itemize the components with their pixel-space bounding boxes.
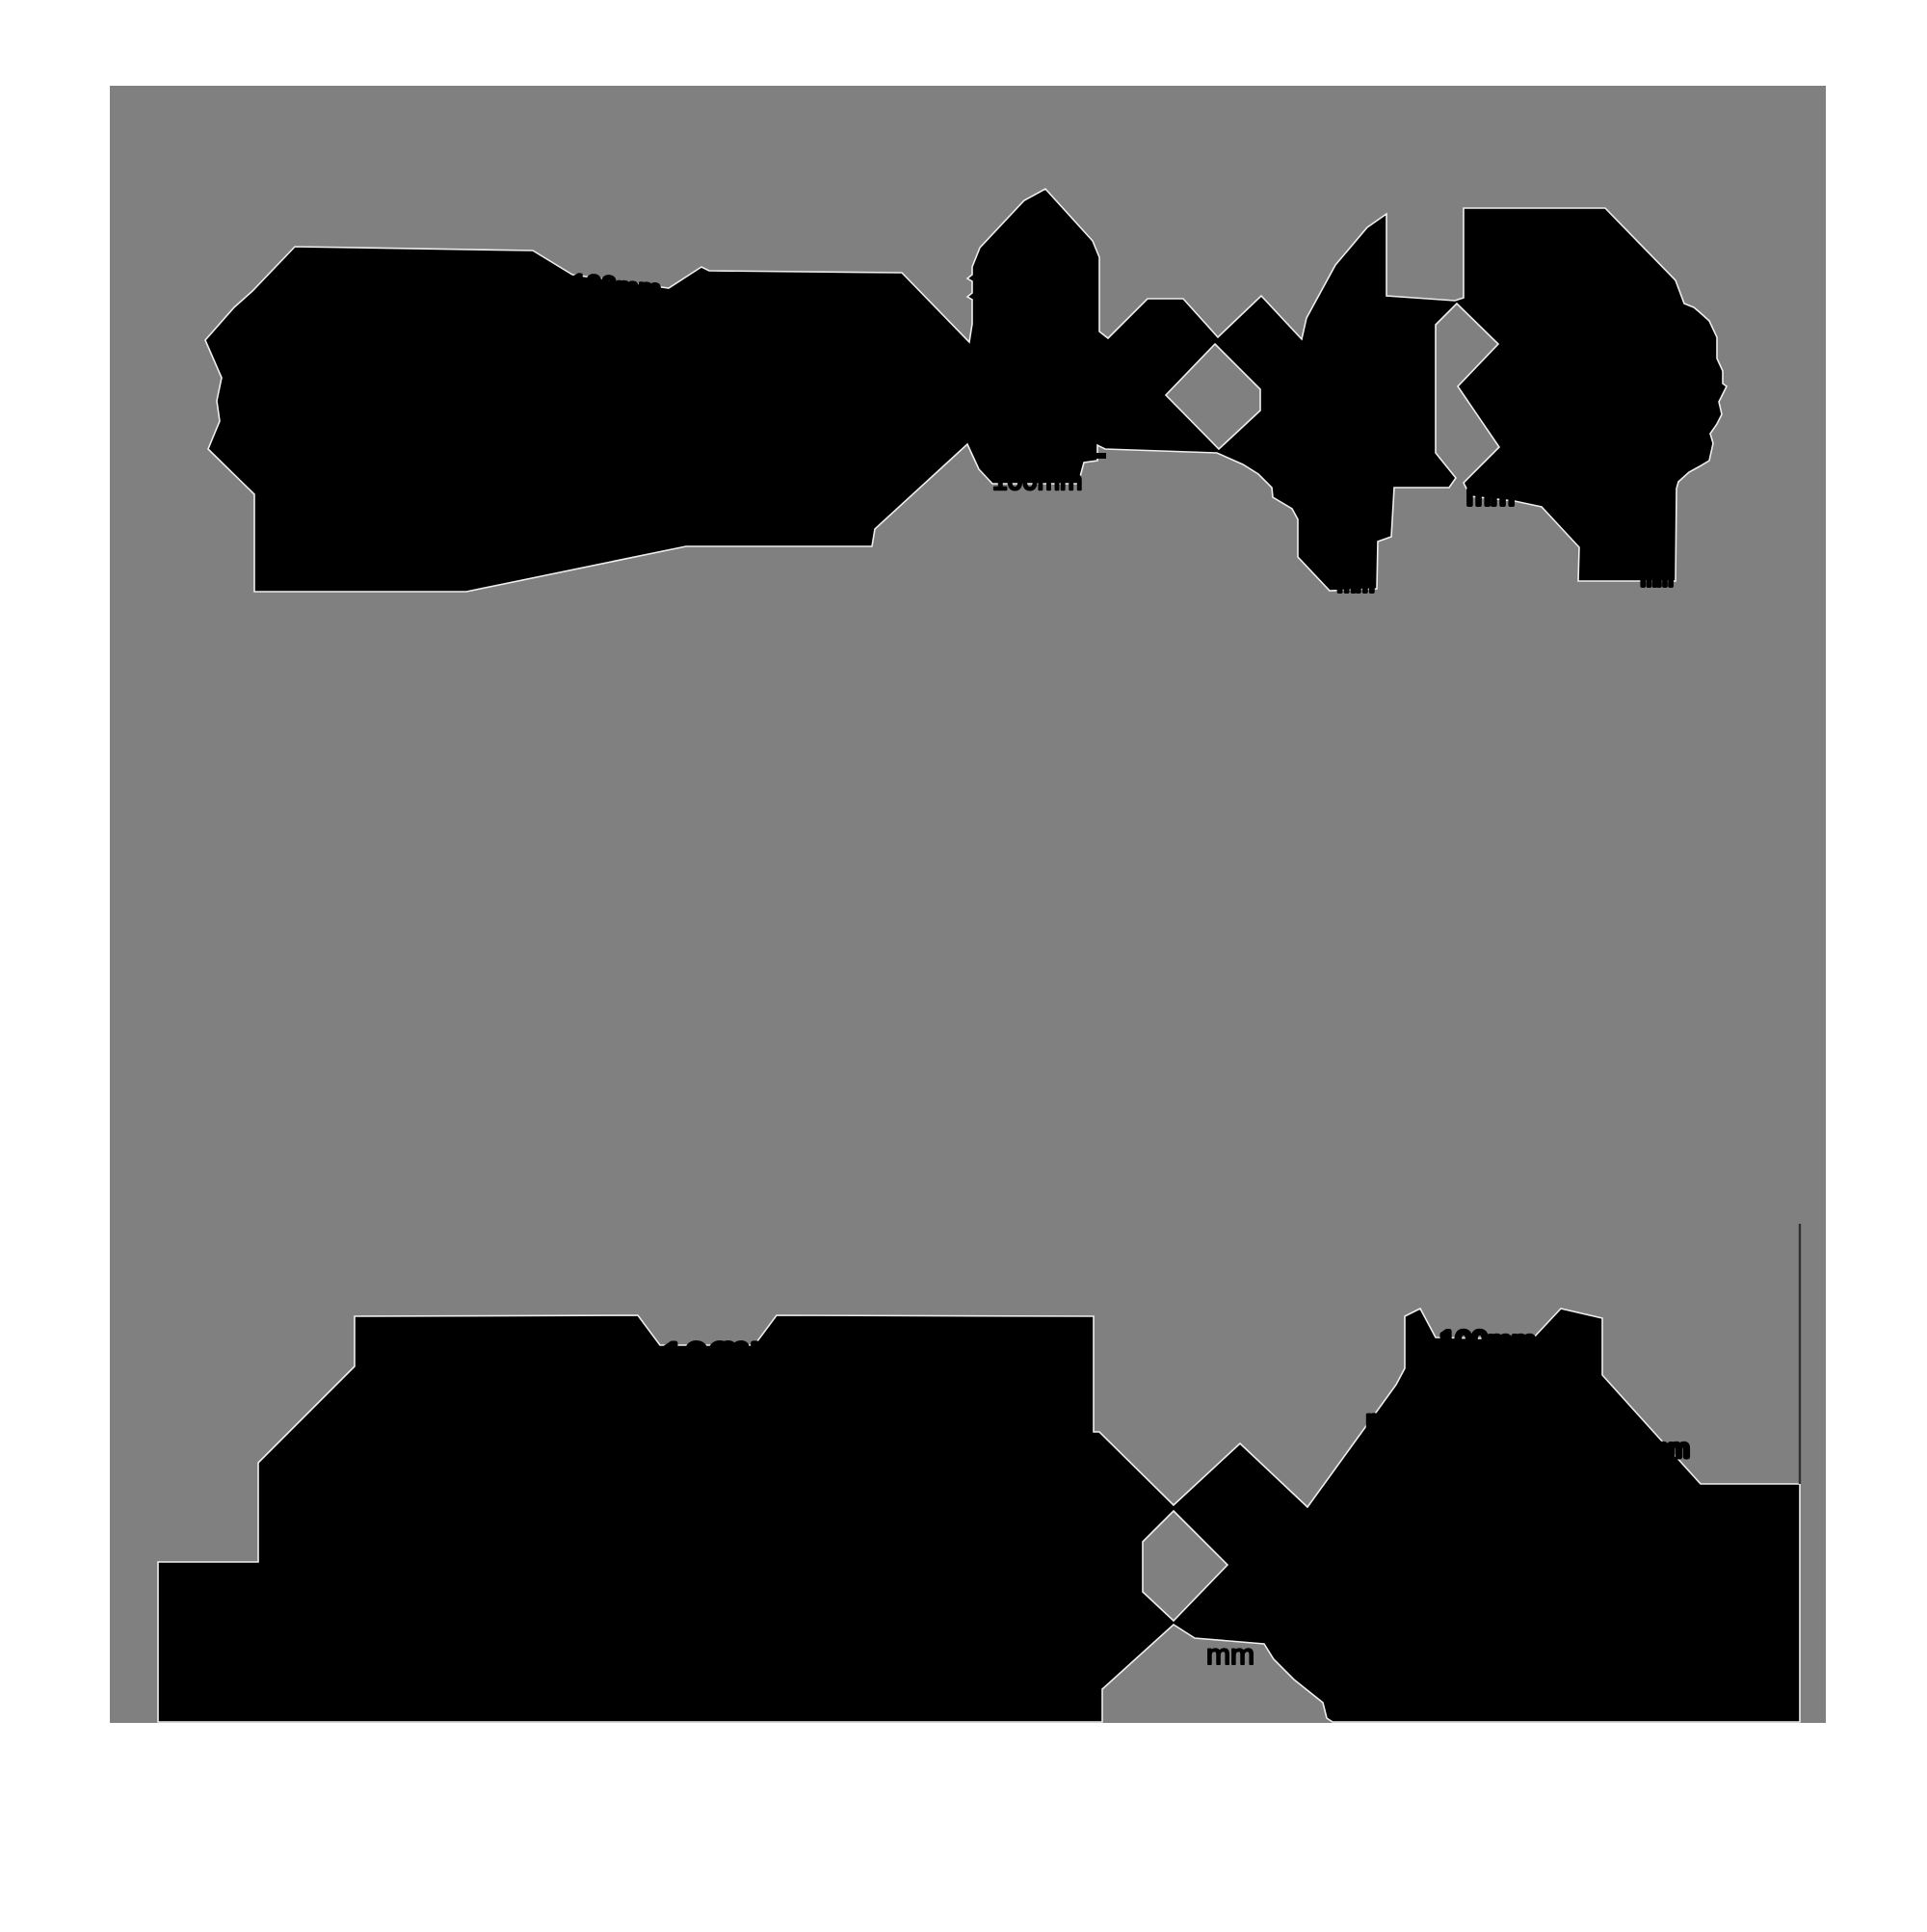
svg-text:mm: mm [1641, 569, 1673, 591]
dimension leader line [1799, 1224, 1801, 1484]
svg-text:mm: mm [1366, 1405, 1408, 1434]
svg-text:mm: mm [1466, 480, 1515, 512]
svg-text:100mm: 100mm [570, 269, 662, 304]
svg-text:mm: mm [1337, 571, 1374, 596]
tick mark [1094, 453, 1106, 459]
svg-text:mm: mm [1206, 1639, 1254, 1671]
bottom band silhouette blob [158, 1309, 1800, 1722]
svg-text:100mm: 100mm [1439, 1326, 1536, 1358]
svg-text:mm: mm [1648, 1434, 1689, 1463]
drawing sheet [110, 86, 1826, 1723]
top band silhouette blob [205, 189, 1727, 592]
svg-text:100mm: 100mm [992, 465, 1082, 495]
svg-text:mm: mm [715, 1328, 785, 1375]
